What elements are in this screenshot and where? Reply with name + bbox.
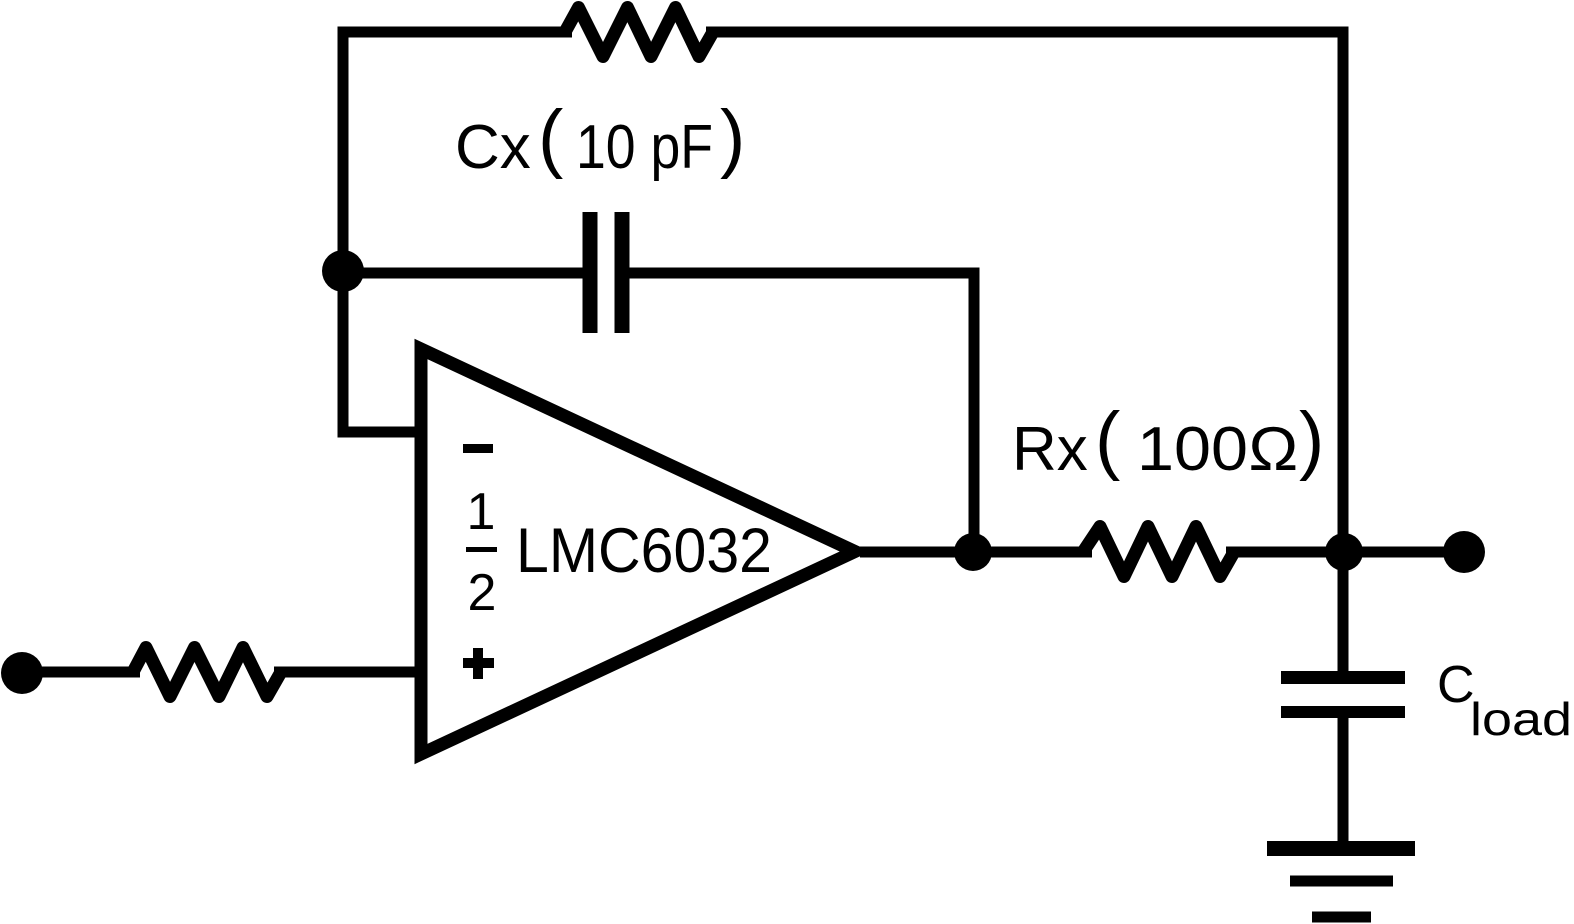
- wire: Cx right plate to corner, down to output node: [629, 273, 974, 552]
- svg-text:load: load: [1470, 693, 1572, 745]
- wire: node A to Cx left plate: [343, 268, 584, 279]
- wire: inverting input stub, left vertical riser, top feedback run (left of RF): [343, 32, 572, 432]
- op-amp U1 plus sign (non-inverting input mark): [463, 658, 494, 668]
- node: op-amp output junction (Cx feedback tap): [954, 533, 992, 571]
- node A (junction of feedback, Cx and inverting input): [322, 250, 364, 292]
- ground symbol: [1267, 841, 1415, 856]
- wire: top feedback run (right of RF) and right vertical drop to output node / Cload: [706, 32, 1343, 678]
- svg-text:10 pF: 10 pF: [576, 113, 713, 182]
- capacitor Cx (right plate): [615, 212, 630, 333]
- resistor RF (top feedback resistor): [565, 8, 713, 57]
- svg-text:C: C: [1437, 656, 1475, 714]
- svg-text:LMC6032: LMC6032: [516, 516, 772, 586]
- svg-text:(: (: [538, 95, 563, 180]
- op-amp U1 minus sign (inverting input mark): [463, 444, 493, 453]
- wire: Rx to output terminal: [1226, 547, 1464, 558]
- wire: Rin to non-inverting input: [274, 667, 418, 678]
- svg-text:100Ω: 100Ω: [1137, 415, 1299, 484]
- svg-text:): ): [720, 95, 745, 180]
- resistor Rin (input resistor): [133, 648, 281, 697]
- op-amp U1 triangle body: [421, 349, 855, 754]
- terminal: input dot: [1, 652, 43, 694]
- terminal: output dot: [1443, 531, 1485, 573]
- capacitor Cload (top plate): [1281, 671, 1405, 684]
- node: Rx / Cload junction: [1325, 533, 1363, 571]
- svg-text:Cx: Cx: [455, 113, 531, 182]
- wire: op-amp output to Rx: [860, 547, 1092, 558]
- svg-text:(: (: [1095, 397, 1120, 482]
- op-amp U1 fraction bar: [466, 547, 497, 552]
- capacitor Cx (left plate): [583, 212, 598, 333]
- resistor Rx: [1083, 527, 1234, 577]
- svg-text:Rx: Rx: [1012, 415, 1088, 484]
- label Cx (10 pF): [455, 95, 745, 182]
- svg-text:2: 2: [468, 564, 497, 622]
- svg-text:): ): [1299, 397, 1324, 482]
- svg-text:1: 1: [467, 483, 496, 541]
- wire: Cload bottom plate to ground: [1338, 712, 1349, 848]
- label Rx (100 ohm): [1012, 397, 1324, 484]
- capacitor Cload (bottom plate): [1281, 706, 1405, 718]
- wire: input terminal to Rin: [22, 667, 140, 678]
